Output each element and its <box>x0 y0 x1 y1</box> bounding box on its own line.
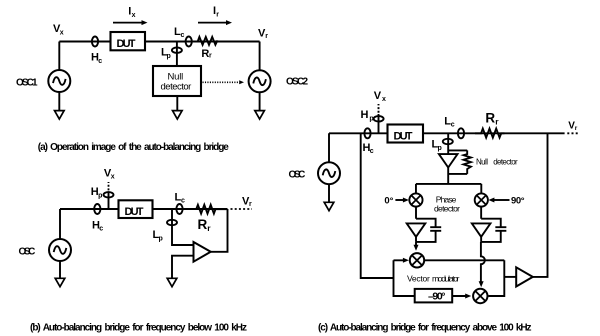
svg-text:r: r <box>265 33 268 40</box>
svg-text:c: c <box>451 122 455 129</box>
svg-text:r: r <box>209 53 212 60</box>
svg-text:x: x <box>111 173 115 180</box>
svg-text:(c) Auto-balancing bridge for: (c) Auto-balancing bridge for frequency … <box>318 323 532 334</box>
svg-text:Vector: Vector <box>407 274 430 284</box>
svg-text:OSC: OSC <box>289 169 306 180</box>
svg-text:x: x <box>132 12 136 19</box>
svg-text:OSC2: OSC2 <box>286 77 308 88</box>
svg-text:modulator: modulator <box>432 274 460 284</box>
svg-text:x: x <box>382 96 386 103</box>
svg-text:(b) Auto-balancing bridge for: (b) Auto-balancing bridge for frequency … <box>30 323 247 334</box>
svg-text:OSC: OSC <box>19 247 36 258</box>
svg-text:R: R <box>485 111 495 126</box>
svg-text:p: p <box>369 116 373 123</box>
svg-text:Null: Null <box>476 158 488 167</box>
svg-text:c: c <box>370 148 374 155</box>
svg-text:r: r <box>216 11 219 18</box>
svg-text:c: c <box>98 58 102 65</box>
svg-text:detector: detector <box>493 158 518 167</box>
svg-text:DUT: DUT <box>125 206 144 218</box>
svg-text:DUT: DUT <box>117 38 136 50</box>
svg-text:V: V <box>374 90 382 102</box>
svg-text:H: H <box>361 109 369 121</box>
svg-text:c: c <box>181 198 185 205</box>
svg-text:r: r <box>249 201 252 208</box>
svg-text:p: p <box>167 53 171 60</box>
svg-text:x: x <box>60 30 64 37</box>
svg-text:90°: 90° <box>511 195 525 206</box>
svg-text:c: c <box>181 32 185 39</box>
svg-text:R: R <box>198 217 208 232</box>
svg-text:OSC1: OSC1 <box>16 77 38 88</box>
svg-text:p: p <box>159 236 163 243</box>
svg-text:p: p <box>98 192 102 199</box>
svg-text:0°: 0° <box>384 195 393 206</box>
svg-text:detector: detector <box>161 81 192 92</box>
svg-text:–90°: –90° <box>428 290 446 302</box>
svg-text:detector: detector <box>434 203 460 213</box>
svg-text:c: c <box>99 226 103 233</box>
svg-text:p: p <box>438 145 442 152</box>
svg-text:DUT: DUT <box>394 130 413 142</box>
svg-text:(a) Operation image of the aut: (a) Operation image of the auto-balancin… <box>38 142 229 153</box>
